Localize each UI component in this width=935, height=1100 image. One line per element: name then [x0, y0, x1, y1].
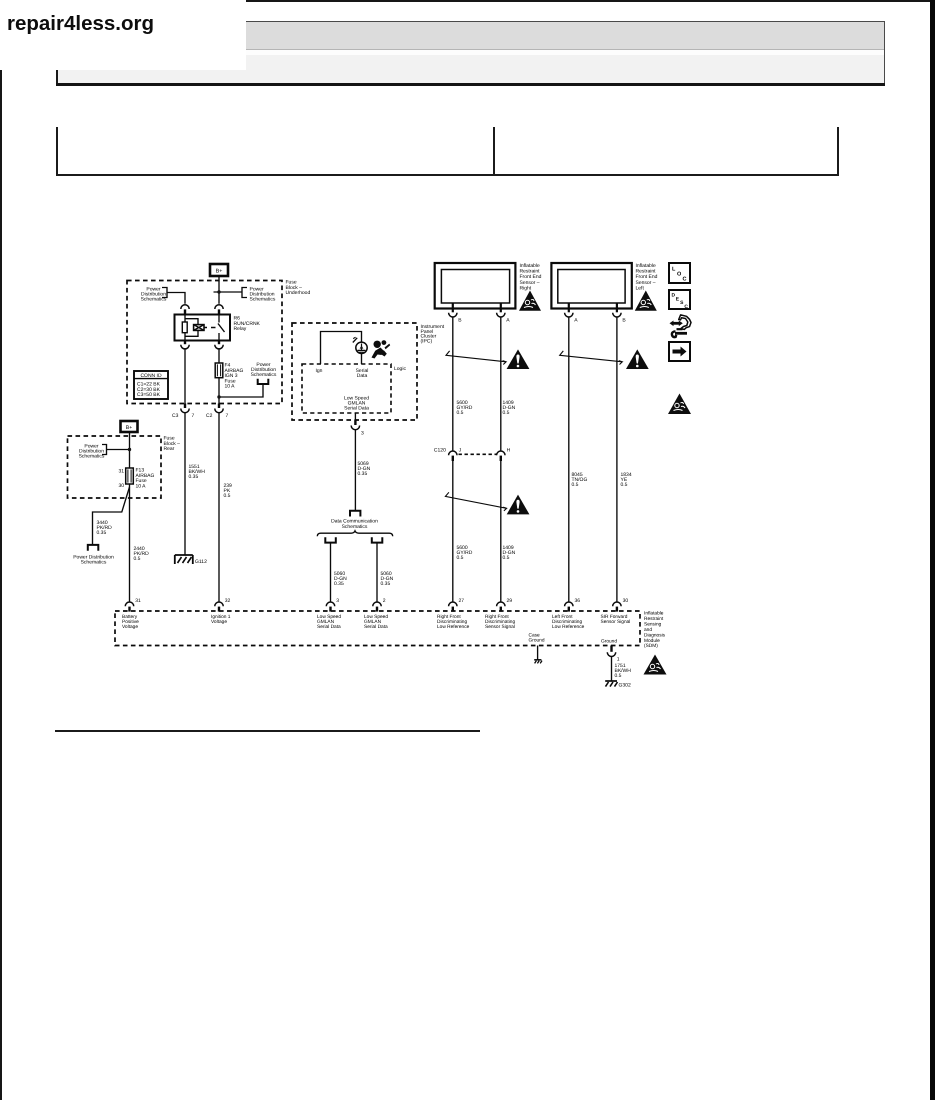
svg-text:C3: C3 — [172, 413, 179, 419]
svg-text:5060D-GN0.35: 5060D-GN0.35 — [381, 571, 394, 587]
svg-text:C1=22 BKC2=30 BKC3=50 BK: C1=22 BKC2=30 BKC3=50 BK — [137, 381, 161, 398]
svg-text:G112: G112 — [195, 559, 207, 565]
svg-text:C: C — [683, 277, 687, 283]
connector above relay pin left — [181, 305, 189, 315]
dashed link C120 — [459, 453, 498, 455]
wire 5060 D-GN left branch — [330, 543, 332, 602]
SDM pin 36 connector — [565, 598, 581, 612]
svg-text:5600GY/RD0.5: 5600GY/RD0.5 — [457, 545, 473, 561]
connector below relay pin left — [181, 341, 189, 349]
fuse F13 — [126, 468, 134, 484]
SDM pin 3 connector — [326, 598, 339, 612]
white watermark box — [0, 0, 246, 70]
caution triangle with exclamation (RF lower) — [507, 495, 530, 515]
svg-text:5069D-GN0.35: 5069D-GN0.35 — [358, 461, 371, 477]
SDM pin 2 connector — [373, 598, 386, 612]
relay coil loop with X element — [185, 319, 204, 337]
page right border — [930, 0, 935, 1100]
in-line connector C120 cavity J — [449, 448, 462, 462]
svg-text:BatteryPositiveVoltage: BatteryPositiveVoltage — [122, 614, 139, 630]
svg-text:R6RUN/CRNKRelay: R6RUN/CRNKRelay — [234, 316, 261, 333]
header table right border — [837, 127, 839, 176]
svg-text:31: 31 — [135, 598, 141, 604]
svg-text:Ign: Ign — [316, 368, 323, 374]
wire lamp to serial data — [361, 354, 363, 365]
svg-text:Data CommunicationSchematics: Data CommunicationSchematics — [331, 519, 378, 530]
SDM pin 31 connector — [125, 598, 141, 612]
B+ power symbol (top, fuse block underhood) — [210, 264, 228, 276]
fuse F4 — [215, 349, 223, 408]
connector C3 pin 7 below underhood box — [172, 404, 195, 420]
svg-text:SIR ForwardSensor Signal: SIR ForwardSensor Signal — [601, 614, 631, 625]
wire LF pin B to SDM pin 30 — [616, 317, 618, 602]
svg-text:H: H — [507, 448, 511, 454]
svg-text:InflatableRestraintFront EndSe: InflatableRestraintFront EndSensor –Left — [636, 263, 658, 292]
svg-text:B: B — [622, 318, 626, 324]
svg-text:InstrumentPanelCluster(IPC): InstrumentPanelCluster(IPC) — [421, 324, 445, 344]
relay contact dash — [205, 327, 216, 329]
svg-text:30: 30 — [623, 598, 629, 604]
goes-to bracket above data communication label — [350, 511, 360, 517]
SDM ground pin 1 connector — [607, 646, 620, 663]
svg-text:C2: C2 — [206, 413, 213, 419]
horizontal rule under schematic — [55, 730, 480, 732]
branch wire 3440 PK/RD — [93, 487, 130, 545]
svg-text:3: 3 — [336, 598, 339, 604]
svg-text:5600GY/RD0.5: 5600GY/RD0.5 — [457, 400, 473, 416]
svg-text:Right FrontDiscriminatingSenso: Right FrontDiscriminatingSensor Signal — [485, 614, 515, 630]
wire B+ down to fuse F13 — [129, 432, 131, 468]
svg-text:30: 30 — [118, 483, 124, 489]
wire C120 J to SDM pin 27 — [452, 461, 454, 602]
svg-text:C: C — [684, 304, 688, 310]
wire RF pin A down to C120 — [500, 317, 502, 451]
svg-text:Low SpeedGMLANSerial Data: Low SpeedGMLANSerial Data — [364, 614, 388, 630]
svg-text:2: 2 — [383, 598, 386, 604]
forward arrow icon box — [669, 342, 690, 361]
svg-text:Low SpeedGMLANSerial Data: Low SpeedGMLANSerial Data — [344, 396, 369, 412]
IPC pin 3 connector — [351, 413, 364, 437]
header table left border — [56, 127, 58, 176]
wire F13 to SDM pin 31 — [129, 484, 131, 602]
wire RF pin B down to C120 — [452, 317, 454, 451]
svg-text:PowerDistributionSchematics: PowerDistributionSchematics — [251, 362, 277, 378]
LOC icon box — [669, 263, 690, 283]
relay R6 RUN/CRNK box — [175, 315, 231, 341]
wire callout to B+ feed — [107, 449, 130, 451]
case ground wire and symbol — [534, 646, 542, 664]
svg-text:32: 32 — [225, 598, 231, 604]
harness crossing mark (LF) — [560, 351, 623, 365]
svg-text:InflatableRestraintFront EndSe: InflatableRestraintFront EndSensor –Righ… — [520, 263, 542, 292]
wire LF pin A to SDM pin 36 — [568, 317, 570, 602]
svg-text:L: L — [672, 267, 676, 273]
svg-text:1409D-GN0.5: 1409D-GN0.5 — [503, 400, 516, 416]
svg-text:2440PK/RD0.5: 2440PK/RD0.5 — [134, 546, 150, 562]
wire relay coil to C3 pin 7 — [184, 349, 186, 408]
connector C2 pin 7 below underhood box — [206, 404, 229, 420]
LF sensor pin A connector — [565, 303, 579, 324]
junction dot rear B+ feed — [128, 448, 131, 451]
jump arrows icon — [670, 315, 692, 337]
svg-text:F13AIRBAGFuse10 A: F13AIRBAGFuse10 A — [136, 468, 155, 490]
svg-text:36: 36 — [575, 598, 581, 604]
svg-text:J: J — [459, 448, 462, 454]
svg-text:1: 1 — [617, 657, 620, 663]
svg-text:G302: G302 — [619, 683, 631, 689]
svg-text:FuseBlock –Underhood: FuseBlock –Underhood — [286, 280, 311, 297]
wire from bracket joining fuse output — [219, 384, 263, 397]
airbag caution triangle (icon column) — [668, 394, 691, 415]
svg-text:8045TN/OG0.5: 8045TN/OG0.5 — [572, 472, 588, 488]
wire B+ down to relay — [218, 276, 220, 304]
svg-text:27: 27 — [459, 598, 465, 604]
harness crossing mark (RF upper) — [446, 351, 506, 365]
svg-text:CaseGround: CaseGround — [529, 633, 545, 644]
ground G112 — [175, 555, 207, 565]
wire 239 PK to SDM pin 32 — [218, 413, 220, 602]
airbag person icon — [372, 340, 391, 358]
fuse block rear dashed box — [68, 436, 162, 498]
horizontal brace — [317, 531, 392, 536]
svg-text:InflatableRestraintSensingandD: InflatableRestraintSensingandDiagnosisMo… — [644, 611, 666, 650]
connector above relay pin right — [215, 305, 223, 315]
svg-text:Ground: Ground — [601, 639, 617, 645]
SDM dashed box — [115, 611, 640, 646]
svg-text:PowerDistributionSchematics: PowerDistributionSchematics — [250, 287, 276, 303]
svg-text:A: A — [574, 318, 578, 324]
watermark text repair4less.org — [7, 12, 154, 36]
wire 1751 BK/WH to G302 — [611, 657, 613, 682]
svg-text:SerialData: SerialData — [356, 368, 369, 379]
svg-text:3440PK/RD0.35: 3440PK/RD0.35 — [97, 520, 113, 536]
inflatable restraint front end sensor left box — [551, 263, 631, 309]
airbag caution triangle (RF sensor) — [519, 291, 541, 311]
svg-text:7: 7 — [226, 413, 229, 419]
svg-text:1751BK/WH0.5: 1751BK/WH0.5 — [615, 663, 632, 679]
wire 5060 D-GN right branch — [376, 543, 378, 602]
svg-text:1409D-GN0.5: 1409D-GN0.5 — [503, 545, 516, 561]
SDM pin 30 connector — [613, 598, 629, 612]
svg-text:B+: B+ — [126, 425, 133, 431]
svg-text:F4AIRBAGIGN 3Fuse10 A: F4AIRBAGIGN 3Fuse10 A — [225, 363, 244, 390]
logic dashed box — [302, 364, 391, 413]
svg-text:7: 7 — [192, 413, 195, 419]
wire 5069 D-GN serial data — [354, 430, 356, 511]
inflatable restraint front end sensor right box — [435, 263, 516, 309]
goes-to bracket (power distribution, bottom left) — [88, 545, 99, 551]
connector below relay pin right — [215, 341, 223, 349]
page left border — [0, 0, 2, 1100]
harness crossing mark (RF lower) — [445, 492, 506, 511]
R mark on lamp — [353, 337, 357, 342]
SDM pin 27 connector — [449, 598, 465, 612]
wire 1551 BK/WH to G112 — [184, 413, 186, 555]
page top border — [0, 0, 935, 2]
header table bottom border — [56, 174, 839, 176]
svg-text:3: 3 — [361, 431, 364, 437]
svg-text:B: B — [458, 318, 462, 324]
svg-text:A: A — [506, 318, 510, 324]
svg-text:C120: C120 — [434, 448, 446, 454]
relay switch blade — [218, 315, 225, 341]
svg-text:PowerDistributionSchematics: PowerDistributionSchematics — [79, 444, 105, 460]
airbag caution triangle (LF sensor) — [635, 291, 657, 311]
wire from left callout to relay coil — [167, 293, 185, 304]
callout bracket to Power Distribution Schematics (right of B+) — [242, 288, 247, 298]
svg-text:31: 31 — [118, 469, 124, 475]
node junction at B+ feed — [214, 290, 243, 293]
svg-text:5060D-GN0.35: 5060D-GN0.35 — [334, 571, 347, 587]
wire ign to airbag telltale — [321, 332, 362, 365]
svg-text:FuseBlock –Rear: FuseBlock –Rear — [164, 436, 181, 453]
svg-text:239PK0.5: 239PK0.5 — [224, 483, 233, 499]
airbag caution triangle (SDM) — [644, 655, 667, 675]
junction dot fuse output — [217, 395, 220, 398]
svg-text:Left FrontDiscriminatingLow Re: Left FrontDiscriminatingLow Reference — [552, 614, 585, 630]
ground G302 — [605, 681, 631, 689]
DESC icon box — [669, 290, 690, 310]
caution triangle with exclamation (RF upper) — [507, 349, 530, 369]
svg-text:O: O — [677, 272, 682, 278]
callout bracket (left label) — [162, 288, 167, 298]
schematic svg — [0, 250, 935, 750]
svg-text:Low SpeedGMLANSerial Data: Low SpeedGMLANSerial Data — [317, 614, 341, 630]
SDM pin 29 connector — [497, 598, 513, 612]
wire C120 H to SDM pin 29 — [500, 461, 502, 602]
svg-text:PowerDistributionSchematics: PowerDistributionSchematics — [141, 287, 167, 303]
RF sensor pin A connector — [497, 303, 511, 324]
svg-text:1551BK/WH0.35: 1551BK/WH0.35 — [189, 464, 206, 480]
callout bracket (rear box label) — [102, 445, 107, 455]
RF sensor pin B connector — [449, 303, 463, 324]
relay coil resistor — [182, 315, 187, 341]
instrument panel cluster dashed box — [292, 323, 417, 420]
svg-text:Logic: Logic — [394, 366, 406, 372]
branch bracket right — [372, 537, 383, 542]
branch bracket left — [325, 537, 336, 542]
browser toolbar box — [56, 21, 885, 84]
airbag indicator lamp circle — [356, 342, 367, 353]
svg-text:B+: B+ — [216, 268, 223, 274]
LF sensor pin B connector — [613, 303, 627, 324]
caution triangle with exclamation (LF) — [626, 349, 649, 369]
in-line connector C120 cavity H — [497, 448, 511, 462]
svg-text:Ignition 1Voltage: Ignition 1Voltage — [211, 614, 231, 625]
svg-text:1834YE0.5: 1834YE0.5 — [621, 472, 632, 488]
B+ power symbol (fuse block rear) — [121, 421, 138, 432]
svg-text:CONN ID: CONN ID — [140, 373, 162, 379]
svg-text:Right FrontDiscriminatingLow R: Right FrontDiscriminatingLow Reference — [437, 614, 470, 630]
fuse block underhood dashed box — [127, 281, 282, 404]
toolbar bottom black rule — [56, 83, 885, 86]
SDM pin 32 connector — [215, 598, 231, 612]
goes-to bracket under label — [258, 379, 269, 384]
svg-text:29: 29 — [507, 598, 513, 604]
svg-text:Power DistributionSchematics: Power DistributionSchematics — [73, 555, 114, 566]
CONN ID table — [134, 371, 168, 399]
header table middle divider — [493, 127, 495, 174]
